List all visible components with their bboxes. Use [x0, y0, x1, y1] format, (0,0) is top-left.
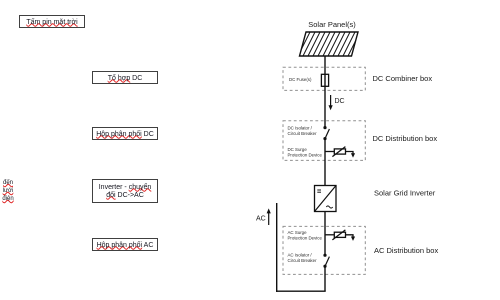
- surge protection device SPD2 (AC varistor): [325, 230, 355, 241]
- svg-text:Circuit Breaker: Circuit Breaker: [288, 131, 318, 136]
- svg-text:Solar Panel(s): Solar Panel(s): [308, 20, 356, 29]
- svg-text:DC Distribution box: DC Distribution box: [373, 134, 438, 143]
- wire: inverter to AC distribution: [324, 212, 326, 255]
- svg-text:DC Surge: DC Surge: [288, 147, 308, 152]
- wire: AC isolator down to bottom: [324, 266, 326, 291]
- svg-text:DC: DC: [335, 98, 345, 105]
- svg-text:DC Fuse(s): DC Fuse(s): [289, 77, 312, 82]
- label box: Tấm pin mặt trời: [19, 15, 85, 28]
- annotation arrow: DC flow: [329, 95, 345, 110]
- svg-text:Protection Device: Protection Device: [288, 153, 323, 158]
- label box: Inverter - chuyển đổi DC->AC: [92, 179, 158, 203]
- fuse F1: [321, 74, 328, 87]
- svg-text:DC Combiner box: DC Combiner box: [373, 74, 433, 83]
- wire: DC distribution to inverter: [324, 139, 326, 186]
- surge protection device SPD1 (DC varistor): [325, 147, 355, 158]
- solar panel PV (hatched parallelogram): [292, 30, 366, 58]
- label box: Hộp phân phối DC: [92, 127, 158, 140]
- switch Q2: AC isolator / circuit breaker: [323, 254, 329, 268]
- switch Q1: DC isolator / circuit breaker: [323, 126, 329, 140]
- label box: Hộp phân phối AC: [92, 238, 158, 251]
- svg-text:AC Surge: AC Surge: [288, 230, 308, 235]
- svg-text:AC: AC: [256, 216, 266, 223]
- dashed enclosure: DC Combiner box: [283, 67, 365, 90]
- dashed enclosure: AC Distribution box: [283, 226, 365, 274]
- svg-text:AC Isolator /: AC Isolator /: [288, 252, 313, 257]
- wire: panel to fuse: [324, 56, 326, 75]
- svg-text:Protection Device: Protection Device: [288, 236, 323, 241]
- svg-text:Solar Grid Inverter: Solar Grid Inverter: [374, 189, 436, 198]
- svg-text:Circuit Breaker: Circuit Breaker: [288, 258, 318, 263]
- wire: riser to grid connection: [276, 203, 278, 292]
- inverter U1 (DC/AC converter): [315, 186, 337, 212]
- node label: đến lưới điện (to grid): [0, 179, 16, 203]
- annotation arrow: AC output: [256, 208, 271, 225]
- svg-text:DC Isolator /: DC Isolator /: [288, 126, 313, 131]
- svg-text:AC Distribution box: AC Distribution box: [374, 246, 438, 255]
- wire: bottom horizontal run: [276, 290, 326, 292]
- label box: Tổ hợp DC: [92, 71, 158, 84]
- dashed enclosure: DC Distribution box: [283, 121, 365, 161]
- wire: fuse to DC isolator: [324, 87, 326, 128]
